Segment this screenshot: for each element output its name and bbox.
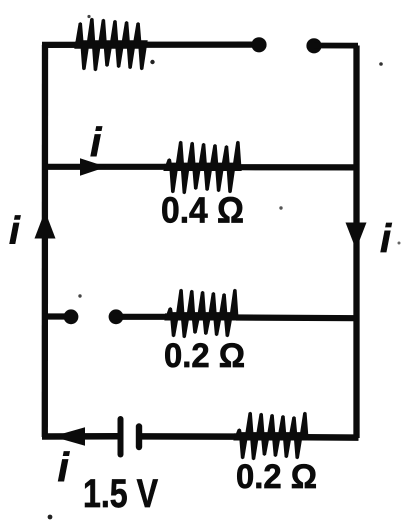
wire row3 stub from left wire: [42, 313, 66, 319]
resistor R3 0.2 ohm (middle branch): [164, 289, 238, 339]
wire row2 right segment: [239, 164, 358, 170]
svg-text:0.4 Ω: 0.4 Ω: [161, 190, 244, 231]
arrowhead current i pointing left (bottom wire): [53, 427, 86, 445]
resistor R4 0.2 ohm (bottom branch): [233, 412, 308, 461]
svg-text:i: i: [58, 444, 71, 490]
scan speck above top resistor: [87, 15, 90, 18]
wire top (left corner to switch dot): [42, 41, 253, 48]
svg-text:0.2 Ω: 0.2 Ω: [164, 337, 245, 375]
svg-text:0.2 Ω: 0.2 Ω: [236, 458, 317, 496]
svg-text:1.5 V: 1.5 V: [83, 472, 158, 516]
switch S2 dot left: [64, 309, 79, 324]
scan speck right of 0.4 label: [279, 206, 282, 209]
scan speck near top resistor: [150, 60, 154, 64]
wire left vertical (top-left to bottom-left corner): [42, 45, 49, 437]
resistor R2 0.4 ohm: [163, 141, 241, 195]
battery V1 long plate (positive): [118, 419, 124, 455]
svg-text:i: i: [90, 119, 103, 165]
wire bottom middle segment (battery to R4): [142, 433, 237, 440]
wire row2 left segment: [42, 164, 168, 170]
arrowhead current i pointing down (right wire): [346, 223, 367, 250]
scan speck top right: [379, 62, 383, 66]
resistor R1 (top branch, unlabeled): [74, 18, 147, 72]
scan speck right of right i: [398, 242, 401, 245]
switch S2 dot right: [109, 309, 124, 324]
switch S1 dot right: [306, 38, 321, 53]
wire row3 right segment: [236, 314, 358, 321]
scan speck above row3: [78, 294, 81, 297]
svg-text:i: i: [9, 210, 21, 253]
wire right vertical (top-right to bottom-right corner): [353, 46, 359, 439]
svg-text:i: i: [380, 217, 392, 261]
wire from S1 right dot to top-right corner: [314, 43, 358, 49]
scan speck bottom left period: [48, 515, 53, 520]
battery V1 short plate (negative): [136, 427, 142, 448]
wire bottom left segment (corner to battery): [42, 433, 119, 440]
wire bottom right segment (R4 to corner): [306, 434, 359, 441]
arrowhead current i pointing right (row2): [80, 158, 107, 176]
switch S1 dot left: [251, 37, 266, 52]
wire row3 from S2 dot to resistor: [116, 314, 168, 320]
arrowhead current i pointing up (left wire): [35, 211, 56, 239]
